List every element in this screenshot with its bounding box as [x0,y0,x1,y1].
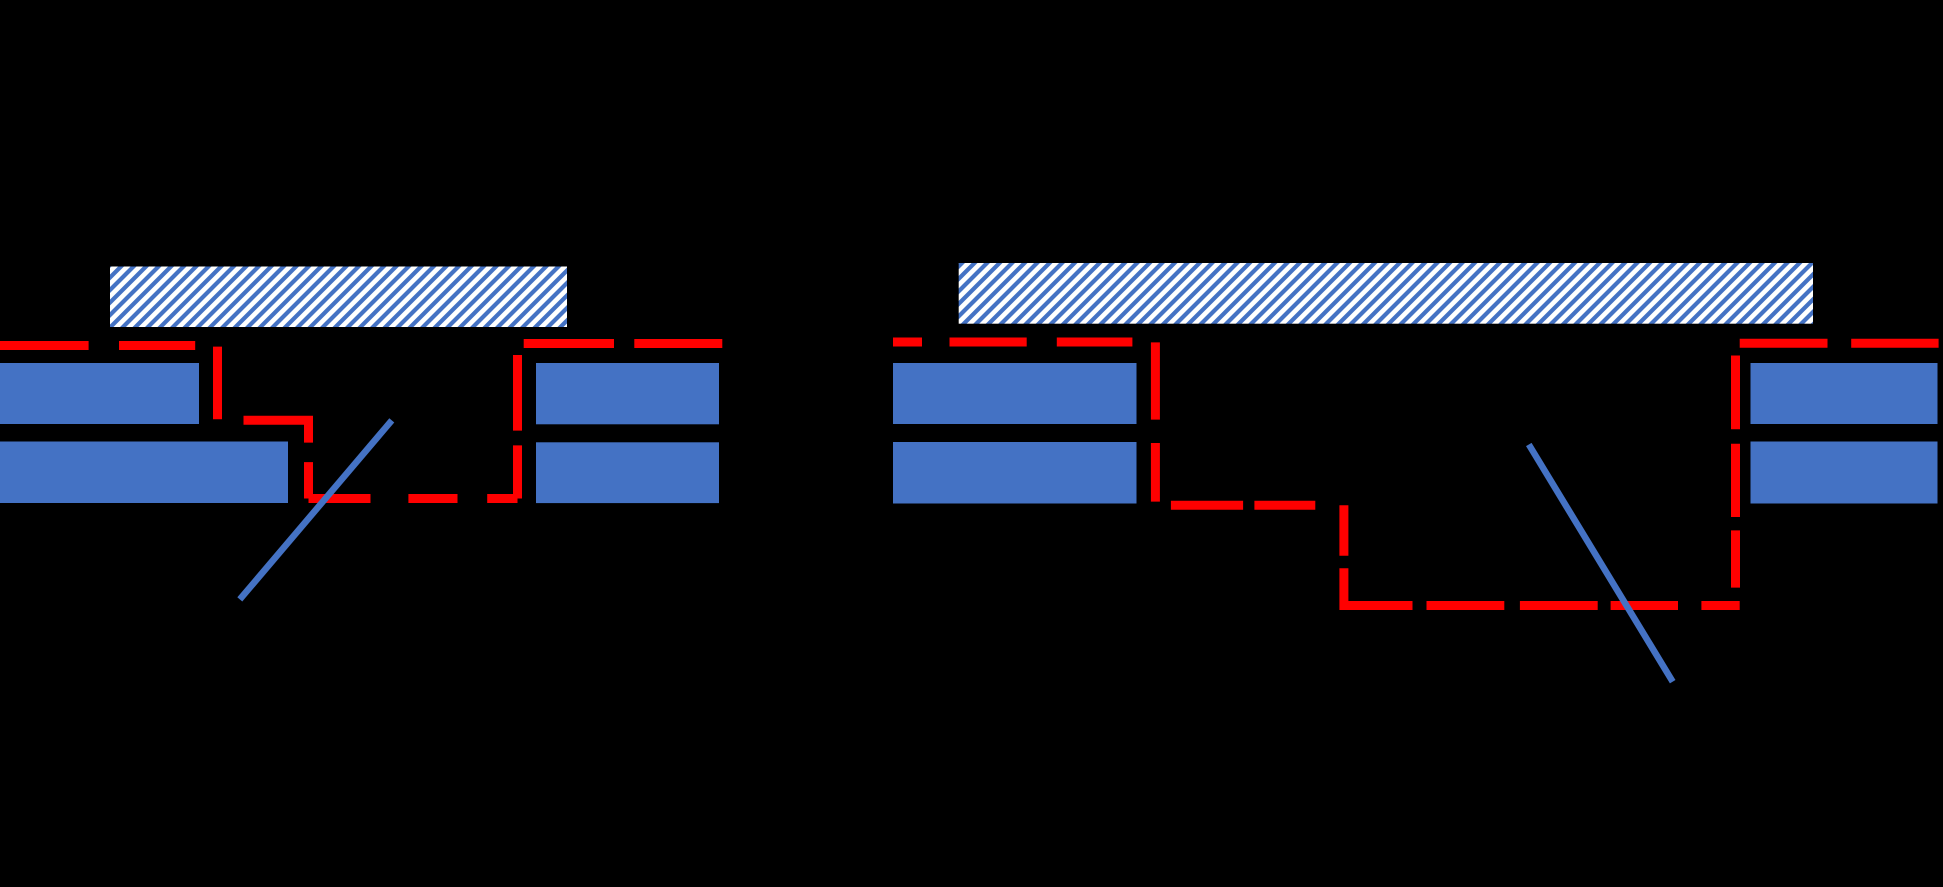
return path segment: rise to right pads (right figure) [1731,343,1740,605]
return path segment: first vertical drop (right figure) [1151,342,1160,505]
return path segment: middle step (left figure) [218,420,309,498]
return path segment: top-right horizontal (right figure) [1736,339,1939,348]
return path segment: top-left horizontal (right figure) [893,338,1146,347]
pad upper-right (left figure) [536,363,719,424]
return path segment: drop and bottom horizontal (right figure) [1344,505,1740,605]
return path segment: top-left horizontal (left figure) [0,341,218,350]
return path segment: bottom horizontal (left figure) [309,494,518,503]
pad upper-left (right figure) [893,363,1137,424]
pad lower-right (left figure) [536,442,719,503]
pad upper-left (left figure) [0,363,199,424]
hatched IC package (right figure) [959,263,1813,324]
pad upper-right (right figure) [1751,363,1938,424]
pad lower-right (right figure) [1751,442,1938,504]
return path segment: top-right horizontal (left figure) [518,339,723,348]
return path segment: rise to right pads (left figure) [513,344,522,499]
callout line (left figure) [240,420,392,599]
return path segment: first vertical drop (left figure) [213,346,222,421]
return path segment: mid horizontal shelf (right figure) [1155,501,1344,510]
pad lower-left (right figure) [893,442,1137,504]
callout line (right figure) [1529,445,1673,682]
hatched IC package (left figure) [110,267,567,328]
ground plane lower-left (left figure) [0,442,288,504]
